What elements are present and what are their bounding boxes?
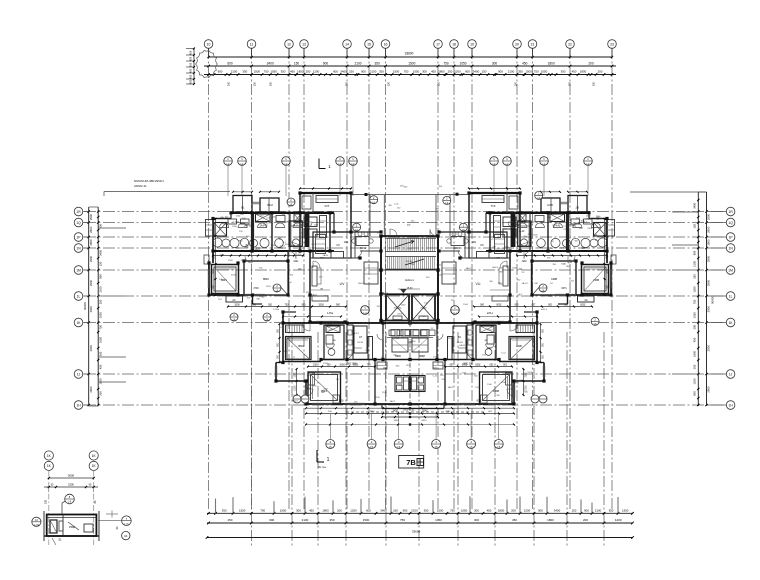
bottom-left detail: axis bubbles: [44, 451, 98, 545]
svg-text:2900: 2900: [707, 386, 711, 393]
svg-text:1J: 1J: [729, 372, 733, 376]
svg-text:150: 150: [692, 223, 696, 228]
svg-text:600: 600: [538, 509, 543, 513]
svg-text:33600: 33600: [405, 52, 414, 56]
svg-text:2900: 2900: [89, 239, 93, 246]
top-left mini dimension stack: [186, 48, 195, 86]
svg-text:1Q: 1Q: [76, 221, 81, 225]
svg-text:150: 150: [294, 61, 300, 65]
lower-right unit rooms (mirror): [408, 306, 547, 426]
vertical grid axis lines: [209, 48, 613, 511]
svg-text:N1-14: N1-14: [406, 261, 413, 263]
svg-text:1500: 1500: [239, 509, 246, 513]
svg-text:1A-D1: 1A-D1: [382, 291, 389, 294]
svg-text:150: 150: [99, 261, 103, 266]
svg-text:1L: 1L: [729, 294, 733, 298]
svg-text:1A-D1: 1A-D1: [459, 344, 466, 347]
svg-text:200: 200: [448, 70, 453, 74]
svg-text:350: 350: [222, 509, 227, 513]
svg-text:ANNR-11: ANNR-11: [134, 184, 147, 188]
svg-text:C6: C6: [336, 243, 340, 247]
svg-text:300: 300: [692, 324, 696, 329]
svg-text:1A-D1: 1A-D1: [465, 267, 472, 270]
svg-text:900: 900: [498, 70, 503, 74]
svg-text:1J: 1J: [77, 372, 81, 376]
svg-text:350: 350: [692, 274, 696, 279]
section mark 1 top: [319, 159, 331, 170]
svg-text:2700: 2700: [253, 288, 259, 290]
svg-text:450: 450: [189, 50, 193, 55]
svg-text:DIN1: DIN1: [360, 247, 366, 250]
svg-text:600: 600: [465, 70, 470, 74]
left dimension band: [83, 207, 126, 406]
svg-text:2100: 2100: [294, 385, 296, 391]
svg-text:350: 350: [242, 70, 247, 74]
svg-text:150: 150: [313, 364, 318, 367]
svg-text:GM: GM: [499, 271, 503, 273]
svg-text:2150: 2150: [394, 420, 400, 422]
svg-text:450: 450: [512, 518, 517, 522]
svg-text:1050: 1050: [339, 364, 345, 367]
svg-text:750: 750: [400, 518, 405, 522]
svg-text:1.121: 1.121: [406, 249, 412, 251]
svg-text:10: 10: [207, 43, 211, 47]
svg-text:150: 150: [438, 81, 441, 86]
svg-text:900: 900: [403, 509, 408, 513]
svg-text:1A-D1: 1A-D1: [353, 332, 360, 335]
svg-text:150: 150: [254, 81, 257, 86]
svg-text:350: 350: [329, 518, 334, 522]
svg-text:1500: 1500: [213, 240, 215, 246]
svg-text:1H: 1H: [728, 403, 733, 407]
top band tick marks: [207, 56, 613, 76]
svg-text:2900: 2900: [707, 226, 711, 233]
svg-text:1500: 1500: [622, 509, 629, 513]
svg-text:900: 900: [269, 518, 274, 522]
bottom-left detail: dimensions: [44, 473, 98, 504]
svg-text:450: 450: [189, 79, 193, 84]
bottom-left detail: callout circle: [62, 494, 74, 514]
svg-text:450: 450: [99, 364, 103, 369]
svg-text:1800: 1800: [580, 70, 587, 74]
svg-text:450: 450: [189, 56, 193, 61]
svg-text:1500: 1500: [408, 61, 415, 65]
svg-text:1800: 1800: [297, 70, 304, 74]
svg-text:2900: 2900: [707, 279, 711, 286]
svg-text:1: 1: [327, 457, 330, 463]
svg-text:300: 300: [99, 351, 103, 356]
svg-text:300: 300: [474, 509, 479, 513]
svg-text:450: 450: [290, 70, 295, 74]
svg-text:600: 600: [333, 70, 338, 74]
svg-text:450: 450: [572, 70, 577, 74]
svg-text:S1: S1: [58, 538, 62, 542]
svg-text:16: 16: [384, 43, 388, 47]
right dimension band: [630, 192, 715, 406]
svg-text:1N: 1N: [76, 246, 81, 250]
svg-text:GM: GM: [493, 246, 497, 248]
svg-text:KIT: KIT: [325, 204, 330, 208]
svg-text:17: 17: [436, 43, 440, 47]
svg-text:600: 600: [692, 391, 696, 396]
svg-text:1800: 1800: [548, 61, 555, 65]
svg-text:96900: 96900: [83, 302, 87, 310]
svg-text:3600: 3600: [68, 473, 75, 477]
extra lower vertical axis lines: [251, 332, 604, 546]
svg-text:1A-F02: 1A-F02: [260, 225, 269, 228]
bottom-left detail: room plan: [44, 511, 99, 545]
svg-text:2100: 2100: [508, 70, 515, 74]
svg-text:1M: 1M: [728, 268, 733, 272]
svg-text:1050: 1050: [461, 509, 468, 513]
svg-text:1050: 1050: [280, 509, 287, 513]
svg-text:300: 300: [561, 70, 566, 74]
section mark 1 bottom: [317, 450, 330, 469]
svg-text:450: 450: [692, 337, 696, 342]
svg-text:2100: 2100: [231, 70, 238, 74]
svg-text:2100: 2100: [370, 70, 377, 74]
svg-text:1A-D1: 1A-D1: [292, 400, 299, 403]
top grid axis bubbles: [204, 40, 616, 57]
svg-text:1200: 1200: [524, 509, 531, 513]
svg-text:2900: 2900: [707, 345, 711, 352]
svg-text:2100: 2100: [354, 61, 361, 65]
svg-text:200: 200: [45, 499, 48, 504]
svg-text:150: 150: [393, 509, 398, 513]
svg-text:3400: 3400: [473, 70, 480, 74]
svg-text:2100: 2100: [99, 286, 103, 292]
svg-text:150: 150: [349, 70, 354, 74]
svg-text:750: 750: [443, 61, 449, 65]
svg-text:200: 200: [337, 509, 342, 513]
svg-text:350: 350: [609, 509, 614, 513]
svg-text:GM: GM: [287, 214, 291, 216]
svg-text:Rc 4-a: Rc 4-a: [318, 465, 326, 469]
bottom band tick marks and stubs: [206, 496, 634, 539]
lower-left unit rooms: [273, 306, 412, 426]
paired callout bubbles lower plan: [293, 395, 547, 403]
svg-text:2100: 2100: [692, 261, 696, 267]
tiny annotation texts across plan: [218, 185, 608, 403]
svg-text:GM: GM: [256, 298, 260, 300]
svg-text:BR2: BR2: [263, 277, 269, 281]
svg-text:1A-D1: 1A-D1: [323, 254, 330, 257]
svg-text:900: 900: [584, 509, 589, 513]
svg-text:450: 450: [431, 70, 436, 74]
svg-text:1800: 1800: [547, 518, 554, 522]
svg-text:7.5DT1: 7.5DT1: [394, 307, 403, 310]
bottom-left detail: side callouts: [32, 511, 131, 540]
svg-text:2100: 2100: [411, 509, 418, 513]
svg-text:150: 150: [482, 70, 487, 74]
svg-text:450: 450: [522, 61, 528, 65]
svg-text:300: 300: [281, 70, 286, 74]
svg-text:300: 300: [422, 70, 427, 74]
svg-text:1500: 1500: [692, 286, 696, 292]
top dimension band lines: [204, 57, 616, 75]
svg-text:200: 200: [99, 391, 103, 396]
svg-text:20: 20: [515, 43, 519, 47]
svg-text:3400: 3400: [267, 61, 274, 65]
svg-text:2900: 2900: [89, 306, 93, 313]
svg-text:1A-D1: 1A-D1: [522, 282, 529, 285]
svg-text:18: 18: [452, 43, 456, 47]
svg-text:1500: 1500: [234, 304, 240, 307]
svg-text:200: 200: [588, 61, 594, 65]
svg-text:2900: 2900: [707, 306, 711, 313]
svg-text:900: 900: [302, 304, 307, 307]
svg-text:5.10th: 5.10th: [273, 308, 280, 311]
svg-text:1H: 1H: [76, 403, 81, 407]
svg-text:1200: 1200: [313, 70, 320, 74]
svg-text:1050: 1050: [692, 312, 696, 318]
svg-text:300: 300: [492, 61, 498, 65]
svg-text:1200: 1200: [615, 518, 622, 522]
svg-text:1500: 1500: [294, 372, 296, 378]
svg-text:600: 600: [227, 61, 233, 65]
svg-text:1L: 1L: [77, 294, 81, 298]
svg-text:33600: 33600: [412, 530, 421, 534]
svg-text:3400: 3400: [554, 509, 561, 513]
svg-text:1500: 1500: [363, 518, 370, 522]
svg-text:1A-D1: 1A-D1: [293, 224, 300, 227]
svg-text:350: 350: [99, 299, 103, 304]
svg-text:WC2: WC2: [267, 203, 273, 207]
svg-text:1K: 1K: [124, 534, 128, 538]
svg-text:22: 22: [568, 43, 572, 47]
svg-text:900: 900: [692, 250, 696, 255]
horizontal grid axis lines: [84, 212, 726, 406]
svg-text:350: 350: [424, 509, 429, 513]
svg-text:450: 450: [189, 62, 193, 67]
svg-text:1Q: 1Q: [728, 221, 733, 225]
svg-text:350: 350: [379, 70, 384, 74]
svg-text:AC: AC: [232, 299, 236, 302]
bottom dimension band lines: [207, 513, 633, 537]
svg-text:1050: 1050: [459, 61, 466, 65]
svg-text:11: 11: [250, 43, 254, 47]
svg-text:200: 200: [306, 70, 311, 74]
svg-text:GM: GM: [320, 289, 324, 291]
svg-text:7.5DT: 7.5DT: [420, 307, 427, 310]
intermediate axis bubbles above plan: [224, 157, 593, 196]
svg-text:15: 15: [367, 43, 371, 47]
central stair and elevator core: [346, 193, 484, 412]
svg-text:150: 150: [515, 81, 518, 86]
svg-text:300: 300: [296, 509, 301, 513]
left wing rooms: [204, 188, 383, 324]
svg-text:B1: B1: [241, 206, 245, 210]
svg-text:2900: 2900: [89, 213, 93, 220]
svg-text:1050: 1050: [435, 518, 442, 522]
svg-text:GM1: GM1: [294, 261, 300, 263]
svg-text:150: 150: [388, 81, 391, 86]
svg-text:750: 750: [403, 70, 408, 74]
svg-text:1A-D1: 1A-D1: [585, 218, 592, 221]
svg-text:200: 200: [583, 518, 588, 522]
svg-text:150: 150: [227, 518, 232, 522]
svg-text:GM: GM: [321, 392, 325, 394]
svg-text:1200: 1200: [350, 509, 357, 513]
plan title box 7B: [399, 456, 424, 469]
svg-text:NNfANUM-4Bb1N61N: NNfANUM-4Bb1N61N: [134, 179, 164, 183]
svg-text:1050: 1050: [541, 70, 548, 74]
svg-text:450: 450: [487, 509, 492, 513]
svg-text:GM: GM: [519, 380, 523, 382]
svg-text:750: 750: [534, 70, 539, 74]
svg-text:GM: GM: [435, 208, 439, 210]
svg-text:HW: HW: [344, 240, 349, 244]
svg-text:1A-D1: 1A-D1: [254, 248, 261, 251]
svg-text:150: 150: [593, 81, 596, 86]
svg-text:2100: 2100: [302, 518, 309, 522]
svg-text:HALL1: HALL1: [405, 278, 414, 282]
note text top-left: [104, 179, 230, 196]
svg-text:1500: 1500: [525, 70, 532, 74]
svg-text:900: 900: [218, 70, 223, 74]
svg-text:1600: 1600: [338, 401, 344, 403]
svg-text:750: 750: [264, 70, 269, 74]
svg-text:21: 21: [531, 43, 535, 47]
svg-text:1-501: 1-501: [327, 330, 333, 332]
svg-text:GM: GM: [566, 266, 570, 268]
svg-text:1M: 1M: [76, 268, 81, 272]
svg-text:900: 900: [361, 70, 366, 74]
svg-text:150: 150: [228, 81, 231, 86]
svg-text:2900: 2900: [89, 226, 93, 233]
right wing rooms (mirror): [437, 188, 616, 324]
svg-text:2900: 2900: [707, 239, 711, 246]
svg-text:350: 350: [375, 61, 381, 65]
svg-text:1A-D1: 1A-D1: [492, 266, 499, 269]
svg-text:150: 150: [572, 509, 577, 513]
svg-text:7B: 7B: [406, 458, 416, 467]
svg-text:750: 750: [285, 304, 290, 307]
svg-text:3400: 3400: [380, 509, 387, 513]
svg-text:900: 900: [336, 304, 341, 307]
left grid axis bubbles: [74, 207, 89, 409]
svg-text:200: 200: [692, 364, 696, 369]
svg-text:1500: 1500: [213, 268, 215, 274]
svg-text:BR1: BR1: [221, 278, 227, 282]
svg-text:600: 600: [366, 509, 371, 513]
svg-text:GM: GM: [534, 283, 538, 285]
svg-text:900 1500: 900 1500: [347, 364, 357, 366]
svg-text:1500: 1500: [437, 509, 444, 513]
svg-text:3400: 3400: [340, 70, 347, 74]
svg-text:1500: 1500: [254, 70, 261, 74]
svg-text:450: 450: [189, 68, 193, 73]
svg-text:900: 900: [323, 61, 329, 65]
svg-text:1500: 1500: [393, 70, 400, 74]
svg-text:2100: 2100: [595, 509, 602, 513]
svg-text:PRE: PRE: [69, 525, 75, 529]
svg-text:23: 23: [610, 43, 614, 47]
svg-text:96900: 96900: [711, 296, 715, 304]
svg-text:2900: 2900: [89, 386, 93, 393]
svg-text:1800: 1800: [99, 378, 103, 384]
svg-text:1800: 1800: [438, 70, 445, 74]
svg-text:19: 19: [470, 43, 474, 47]
svg-text:1A-F01: 1A-F01: [244, 225, 253, 228]
svg-text:1A-D1: 1A-D1: [358, 282, 365, 285]
svg-text:1R: 1R: [728, 210, 733, 214]
svg-text:300: 300: [474, 518, 479, 522]
svg-text:FY: FY: [407, 223, 411, 227]
svg-text:150: 150: [569, 81, 572, 86]
svg-text:14: 14: [345, 43, 349, 47]
svg-text:1200: 1200: [454, 70, 461, 74]
svg-text:150: 150: [270, 81, 273, 86]
svg-text:1800: 1800: [322, 509, 329, 513]
svg-text:1050: 1050: [270, 70, 277, 74]
svg-text:1200: 1200: [692, 378, 696, 384]
svg-text:12: 12: [287, 43, 291, 47]
svg-text:750: 750: [367, 364, 372, 367]
svg-text:750: 750: [450, 509, 455, 513]
top band dimension numerals: [218, 52, 603, 86]
svg-text:2900: 2900: [89, 279, 93, 286]
detail callout bubbles in plan: [230, 191, 599, 326]
svg-text:2900: 2900: [89, 345, 93, 352]
svg-text:L-2b: L-2b: [124, 524, 129, 526]
svg-text:350: 350: [268, 304, 273, 307]
svg-text:1A-D1: 1A-D1: [311, 293, 318, 296]
svg-text:1800: 1800: [498, 509, 505, 513]
svg-text:2900: 2900: [707, 213, 711, 220]
right grid axis bubbles: [707, 207, 735, 409]
svg-text:3400: 3400: [692, 202, 696, 208]
svg-text:1-3B: 1-3B: [34, 524, 39, 526]
svg-text:2300: 2300: [68, 482, 74, 486]
svg-text:1500: 1500: [318, 304, 324, 307]
svg-text:1R: 1R: [76, 210, 81, 214]
svg-text:1A-D1: 1A-D1: [389, 400, 396, 403]
bottom callout bubbles row: [326, 414, 503, 449]
svg-text:200: 200: [598, 70, 603, 74]
svg-text:1A-D1: 1A-D1: [447, 386, 454, 389]
svg-text:L-D51: L-D51: [233, 222, 240, 224]
svg-text:D2-51: D2-51: [358, 342, 365, 344]
svg-text:750: 750: [692, 299, 696, 304]
revision cloud: [196, 50, 218, 77]
svg-text:1N: 1N: [728, 246, 733, 250]
svg-text:1800: 1800: [692, 351, 696, 357]
svg-text:3400: 3400: [99, 250, 103, 256]
svg-text:2900: 2900: [89, 255, 93, 262]
svg-text:450: 450: [189, 74, 193, 79]
svg-text:1050: 1050: [413, 70, 420, 74]
svg-text:AT: AT: [359, 336, 362, 339]
svg-text:1050: 1050: [99, 337, 103, 343]
svg-text:200: 200: [511, 509, 516, 513]
svg-text:BR3: BR3: [298, 344, 304, 348]
bottom band dimension numerals: [222, 509, 629, 534]
svg-text:350: 350: [518, 70, 523, 74]
svg-text:13: 13: [302, 43, 306, 47]
svg-text:450: 450: [309, 509, 314, 513]
svg-text:900: 900: [252, 304, 257, 307]
svg-text:900: 900: [99, 274, 103, 279]
svg-text:1-F5a: 1-F5a: [327, 313, 334, 315]
svg-text:750: 750: [99, 324, 103, 329]
svg-text:750: 750: [260, 509, 265, 513]
svg-text:2900: 2900: [707, 255, 711, 262]
svg-text:150: 150: [346, 81, 349, 86]
svg-text:1500: 1500: [99, 312, 103, 318]
